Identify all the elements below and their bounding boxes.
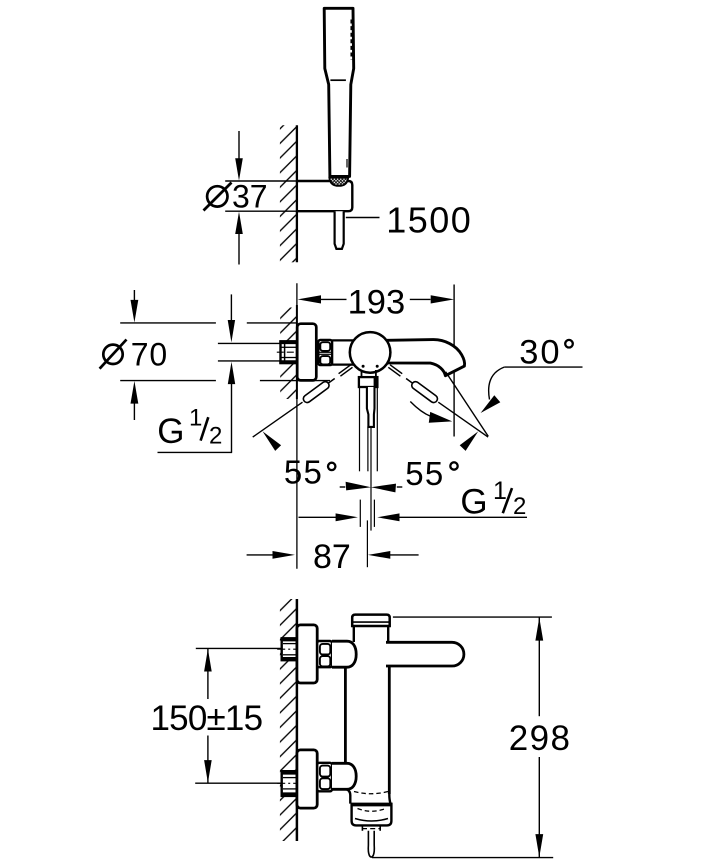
G1/2 thread callout arrows at x=231.5 xyxy=(228,294,236,452)
joint line head/handle xyxy=(330,79,346,81)
svg-text:2: 2 xyxy=(209,423,222,450)
hidden edge arcs above outlet xyxy=(354,792,388,794)
svg-text:298: 298 xyxy=(509,719,572,758)
lever neck (front view) xyxy=(361,370,363,377)
svg-text:70: 70 xyxy=(131,336,168,372)
dimension 298 extension lines xyxy=(393,616,552,618)
dimension line 298 with inside arrows xyxy=(535,617,543,858)
label G 1/2 (left) with underline xyxy=(157,405,232,453)
svg-text:G: G xyxy=(157,412,184,451)
hose stub below bracket xyxy=(335,211,344,249)
lever blade (edge-on) xyxy=(367,387,375,427)
bottom union cone into body xyxy=(332,763,356,789)
svg-text:30: 30 xyxy=(519,334,561,372)
extension line Ø37 top xyxy=(225,180,297,182)
dimension Ø70 (vertical with outside arrows) xyxy=(131,290,139,420)
leader line to 1500 xyxy=(346,217,380,219)
shower hose outlet ticks (G 1/2) xyxy=(360,500,374,527)
wall hatching (side view) xyxy=(280,599,297,841)
svg-text:37: 37 xyxy=(232,179,268,215)
mixer body (front view circle) xyxy=(350,332,391,373)
pipe between nut and body xyxy=(332,339,356,341)
label 55° right xyxy=(405,455,457,492)
body neck below cap xyxy=(353,626,355,642)
30° leader arc and arrow (right) xyxy=(481,367,505,413)
svg-text:55: 55 xyxy=(284,454,323,491)
diverter cap on top of body xyxy=(352,615,390,626)
bottom wall escutcheon (side view) xyxy=(297,750,317,808)
wall bracket / shower holder xyxy=(297,181,352,211)
bowtie arrows (55° arcs meeting at centre line) xyxy=(340,482,403,493)
wall hatching (top view) xyxy=(280,125,297,262)
svg-text:1: 1 xyxy=(189,405,202,432)
30° label with underline xyxy=(504,334,582,372)
label Ø70 xyxy=(100,336,168,372)
top wall escutcheon (side view) xyxy=(297,625,317,683)
label Ø37 xyxy=(204,179,268,215)
supply pipe extension lines (G1/2 thread) xyxy=(218,342,281,344)
extension line 193 right / spout axis xyxy=(453,285,455,437)
svg-text:150±15: 150±15 xyxy=(151,699,263,738)
top supply nipple behind wall (side view) xyxy=(277,638,303,660)
G 1/2 leader with opposed arrows xyxy=(299,513,528,521)
dimension 193 xyxy=(298,283,455,321)
extension line Ø37 bottom xyxy=(225,210,334,212)
lever handle (side view) xyxy=(386,642,464,666)
hose connection stub below outlet xyxy=(362,825,381,830)
union hex nut (front view) xyxy=(318,340,332,365)
30° arc arrow at vertical reference (left) xyxy=(410,402,452,423)
body left edge xyxy=(344,668,347,763)
bottom union hex nut (side view) xyxy=(317,763,332,792)
body right edge xyxy=(388,666,391,794)
conical hose nut (cross-hatched) resting on bracket xyxy=(329,178,348,186)
svg-text:1500: 1500 xyxy=(386,200,472,241)
outlet / aerator block xyxy=(352,804,392,826)
svg-text:55: 55 xyxy=(405,455,444,492)
hand shower body xyxy=(324,8,354,176)
lever swing line left (55°, dashed with lever silhouette) xyxy=(253,365,353,437)
arc arrow right 55° xyxy=(460,431,479,451)
body lower-left step to outlet xyxy=(347,789,351,803)
dimension line Ø37 (vertical with outside arrows) xyxy=(235,131,243,265)
wall surface line (side view) xyxy=(296,599,299,841)
wall hatching (front view) xyxy=(280,308,297,400)
label G 1/2 (right) xyxy=(460,477,526,522)
dimension line 150±15 with inside arrows xyxy=(204,648,212,783)
supply pipe behind wall (front view) xyxy=(277,341,297,363)
wall escutcheon (front view, Ø70) xyxy=(297,324,316,381)
lever collar xyxy=(359,377,378,387)
wall surface / extension line (front view, also 193 + 87 extension) xyxy=(296,283,298,569)
spout angle line (30° from vertical) xyxy=(446,372,489,437)
bottom supply nipple behind wall (side view) xyxy=(277,771,303,796)
small seam tick on handle xyxy=(346,159,348,168)
spout (front view) xyxy=(387,340,465,376)
label 55° left xyxy=(284,454,336,491)
spray strip on shower head xyxy=(350,20,353,60)
dimension 87 xyxy=(247,520,419,576)
svg-text:1: 1 xyxy=(493,477,507,505)
extension lines below lever xyxy=(360,388,378,531)
wall surface line (top view) xyxy=(296,125,298,262)
dashed-line dots on body xyxy=(362,365,365,368)
arc arrow left 55° xyxy=(263,431,282,451)
svg-text:G: G xyxy=(460,483,487,522)
svg-text:2: 2 xyxy=(513,493,526,520)
svg-text:193: 193 xyxy=(348,283,406,321)
top union cone into body xyxy=(332,641,356,667)
top union hex nut (side view) xyxy=(317,641,332,667)
Ø70 extension lines xyxy=(120,323,330,381)
svg-text:87: 87 xyxy=(313,538,351,576)
lever swing line right (55°, dashed with lever silhouette) xyxy=(388,365,488,437)
dimension 150±15 extension lines xyxy=(196,647,281,649)
non-return valve drop xyxy=(368,831,374,857)
